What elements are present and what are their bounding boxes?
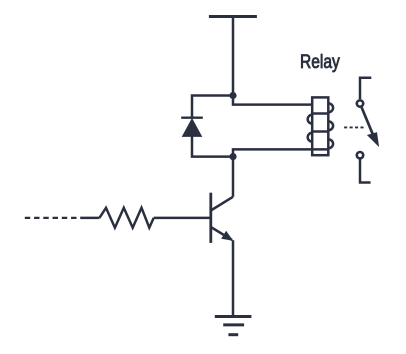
transistor Q1	[211, 193, 233, 243]
wire	[233, 96, 313, 105]
wire	[80, 217, 99, 220]
switch pole circle top	[357, 100, 363, 106]
power rail	[209, 15, 257, 18]
mechanical link dashed	[344, 126, 365, 128]
label Relay	[300, 51, 340, 73]
wire	[192, 136, 233, 157]
node A	[229, 92, 236, 99]
relay coil	[308, 97, 333, 155]
wire	[232, 17, 235, 96]
input dashed wire	[25, 217, 77, 219]
wire	[233, 149, 313, 156]
switch contact top terminal	[360, 78, 371, 99]
wire	[232, 157, 235, 197]
resistor R1	[99, 208, 153, 228]
svg-text:Relay: Relay	[300, 51, 340, 73]
switch blade	[362, 107, 374, 136]
wire	[232, 240, 235, 316]
switch bottom terminal	[360, 159, 371, 182]
switch blade arrowhead	[367, 132, 379, 147]
wire	[192, 96, 233, 119]
switch contact bottom circle	[357, 152, 363, 158]
wire	[154, 217, 210, 220]
diode D1	[181, 118, 203, 137]
node B	[229, 153, 236, 160]
ground	[215, 317, 252, 335]
